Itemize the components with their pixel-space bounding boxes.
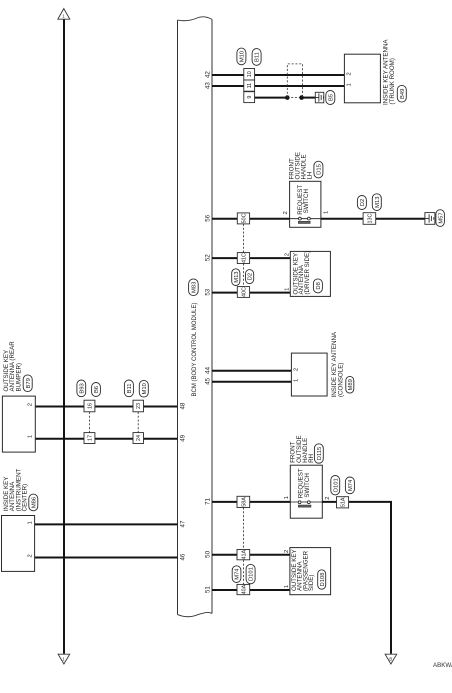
svg-text:B79: B79 [26, 378, 32, 388]
wire BCM 42 to trunk antenna pin 2 [212, 74, 344, 76]
svg-text:D101: D101 [333, 478, 339, 492]
svg-text:2: 2 [283, 211, 289, 214]
connector pin box 13C [363, 213, 376, 225]
svg-text:M89: M89 [348, 379, 354, 390]
ground M57 [425, 213, 435, 225]
shield dashed box [287, 64, 302, 98]
connector label D101 [331, 476, 340, 495]
svg-text:1: 1 [285, 288, 291, 291]
svg-text:M13: M13 [234, 271, 240, 282]
svg-text:D108: D108 [320, 573, 326, 587]
BCM pin 44 [205, 366, 212, 373]
svg-text:58A: 58A [241, 497, 247, 507]
wire bumper antenna pin 1 to BCM 49 [35, 438, 177, 440]
wire BCM 50 to passenger antenna pin 2 [212, 554, 290, 556]
svg-text:17: 17 [87, 435, 93, 441]
instrument antenna text [3, 468, 29, 511]
svg-text:41C: 41C [241, 253, 247, 263]
console antenna pin 1 [293, 379, 299, 382]
BCM pin 47 [179, 520, 186, 527]
console antenna label line 1 [331, 331, 338, 397]
outside key antenna rear bumper box B79 [2, 396, 35, 452]
svg-text:52: 52 [205, 254, 212, 261]
BCM pin 71 [205, 498, 212, 505]
svg-text:M10: M10 [142, 383, 148, 394]
ground B5 [315, 92, 324, 103]
connector label M10 [139, 380, 148, 397]
ground label M57 [436, 210, 445, 227]
svg-text:2: 2 [325, 496, 331, 499]
svg-text:42: 42 [205, 71, 212, 78]
wire request switch LH to ground M57 [321, 218, 425, 220]
svg-text:45: 45 [205, 377, 212, 384]
instrument antenna connector label M86 [29, 494, 38, 511]
svg-text:LH: LH [307, 172, 314, 180]
svg-text:2: 2 [293, 368, 299, 371]
passenger antenna pin 2 [284, 550, 290, 553]
BCM pin 45 [205, 377, 212, 384]
bumper antenna connector label B79 [23, 375, 32, 392]
connector label B11 [252, 49, 261, 66]
trunk antenna pin 1 [346, 83, 352, 86]
svg-text:B: B [389, 656, 392, 661]
instrument antenna pin 1 [28, 521, 34, 524]
request switch RH pin 1 [284, 496, 290, 499]
off-page arrow bottom left (node 1) [58, 654, 70, 664]
request switch LH internal wire [290, 218, 321, 220]
svg-text:1: 1 [27, 435, 33, 438]
svg-text:ABKWA: ABKWA [433, 662, 452, 669]
BCM connector label M83 [189, 279, 199, 296]
wire BCM 53 to driver antenna pin 1 [212, 292, 290, 294]
BCM pin 51 [205, 586, 212, 593]
bumper antenna text [3, 341, 23, 392]
handle RH connector label D115 [314, 444, 323, 463]
ground label B5 [326, 91, 335, 105]
svg-text:M74: M74 [235, 568, 241, 580]
BCM pin 42 [205, 71, 212, 78]
request switch LH text [297, 185, 310, 215]
trunk antenna pin 2 [346, 72, 352, 75]
diagram code ABKWA [433, 662, 452, 669]
wire instrument antenna pin 2 to BCM 46 [35, 557, 178, 559]
wire BCM 56 to request switch LH [212, 218, 290, 220]
console antenna pin 2 [293, 368, 299, 371]
svg-text:B5: B5 [328, 94, 334, 101]
connector pin box 23 [133, 400, 144, 412]
svg-text:M10: M10 [239, 51, 245, 62]
connector pin box 40A [237, 584, 250, 594]
connector label B93 [77, 380, 86, 397]
drain wire to ground [302, 97, 316, 99]
wire BCM 45 to console antenna pin 1 [212, 381, 291, 383]
svg-text:(CONSOLE): (CONSOLE) [338, 363, 345, 397]
svg-text:56: 56 [205, 214, 212, 221]
svg-text:46: 46 [179, 553, 186, 560]
connector pin box 41A [237, 549, 250, 559]
trunk antenna label line 2 [389, 58, 396, 104]
wire BCM 71 to request switch RH [212, 501, 290, 503]
wire BCM 51 to passenger antenna pin 1 [212, 589, 290, 591]
connector label B6 [92, 383, 101, 397]
driver antenna text [292, 251, 311, 295]
wire page-link vertical (left) [63, 19, 65, 654]
svg-text:10: 10 [247, 71, 253, 77]
BCM label text [192, 302, 198, 396]
svg-text:1: 1 [293, 379, 299, 382]
connector pin box 9 [244, 92, 255, 103]
svg-text:BCM (BODY CONTROL MODULE): BCM (BODY CONTROL MODULE) [192, 302, 198, 396]
svg-text:D101: D101 [249, 567, 255, 581]
BCM pin 53 [205, 288, 212, 295]
connector pin box 51A [337, 497, 349, 508]
dashed link 50C-41C [242, 224, 244, 253]
wire BCM 52 to driver antenna pin 2 [212, 257, 290, 259]
svg-text:51: 51 [205, 586, 212, 593]
connector pin box 41C [237, 253, 249, 264]
wire page-link vertical (right) [390, 502, 392, 654]
connector pin box 58A [237, 496, 250, 507]
wire request switch RH to page link [322, 501, 392, 503]
svg-text:43: 43 [205, 82, 212, 89]
svg-text:M13: M13 [375, 197, 381, 208]
svg-text:D15: D15 [316, 164, 322, 175]
handle LH connector label D15 [314, 161, 323, 178]
junction dot [285, 95, 290, 100]
connector pin box 10 [244, 69, 255, 81]
svg-text:23: 23 [136, 403, 142, 409]
svg-text:BUMPER): BUMPER) [15, 363, 22, 392]
svg-text:D115: D115 [317, 447, 323, 460]
BCM pin 50 [205, 550, 212, 557]
bumper antenna pin 1 [27, 435, 33, 438]
svg-text:CENTER): CENTER) [22, 484, 29, 512]
dashed link 41A-40A [242, 560, 244, 585]
connector label D101 [246, 564, 255, 583]
off-page arrow top (node 1) [58, 9, 70, 20]
outside key antenna passenger side box D108 [290, 548, 331, 595]
wire BCM 44 to console antenna pin 2 [212, 370, 291, 372]
svg-text:47: 47 [179, 520, 186, 527]
request switch RH pin 2 [325, 496, 331, 499]
outside key antenna driver side box D8 [290, 251, 330, 296]
front outside handle LH box D15 [290, 181, 321, 227]
connector pin box 16 [84, 400, 95, 412]
svg-text:SWITCH: SWITCH [304, 473, 311, 497]
svg-text:RH: RH [308, 454, 315, 463]
svg-text:13C: 13C [367, 213, 373, 223]
svg-text:41A: 41A [241, 549, 247, 559]
svg-text:71: 71 [205, 498, 212, 505]
dashed link 41C-40C [242, 264, 244, 287]
connector label D2 [357, 196, 366, 210]
wire instrument antenna pin 1 to BCM 47 [35, 523, 178, 525]
passenger antenna connector label D108 [318, 570, 326, 589]
svg-text:2: 2 [285, 253, 291, 256]
svg-text:D8: D8 [316, 282, 322, 289]
svg-text:D2: D2 [248, 273, 254, 280]
svg-text:B6: B6 [94, 386, 100, 393]
svg-text:B93: B93 [79, 383, 85, 393]
svg-text:SIDE): SIDE) [308, 574, 315, 591]
svg-text:M86: M86 [31, 497, 37, 508]
svg-text:50: 50 [205, 550, 212, 557]
svg-text:D2: D2 [360, 199, 366, 206]
svg-text:16: 16 [87, 403, 93, 409]
dashed link 58A-41A [242, 508, 244, 550]
connector label D2 [246, 270, 254, 284]
svg-text:1: 1 [323, 211, 329, 214]
svg-text:48: 48 [179, 402, 186, 409]
svg-text:M74: M74 [348, 479, 354, 491]
svg-text:M83: M83 [191, 282, 197, 293]
request switch RH text [297, 468, 311, 498]
request switch LH pin 2 [283, 211, 289, 214]
svg-text:24: 24 [136, 435, 142, 441]
connector label M74 [345, 477, 354, 494]
console antenna label line 2 [338, 363, 345, 397]
bumper antenna pin 2 [27, 403, 33, 406]
svg-text:(DRIVER SIDE): (DRIVER SIDE) [304, 251, 311, 295]
request switch LH pin 1 [323, 211, 329, 214]
connector pin box 17 [84, 433, 95, 444]
svg-text:51A: 51A [340, 497, 346, 507]
connector pin box 50C [237, 213, 249, 224]
svg-text:53: 53 [205, 288, 212, 295]
connector label M13 [372, 194, 381, 211]
svg-text:B11: B11 [127, 383, 133, 393]
dashed link 16-17 [89, 412, 91, 433]
connector label M10 [237, 48, 246, 65]
shield drain wire [255, 97, 288, 99]
BCM pin 48 [179, 402, 186, 409]
svg-text:40A: 40A [241, 584, 247, 594]
svg-text:1: 1 [284, 585, 290, 588]
console antenna connector label M89 [346, 376, 354, 393]
off-page arrow bottom right (node B) [385, 654, 397, 664]
svg-text:SWITCH: SWITCH [303, 189, 310, 213]
BCM pin 46 [179, 553, 186, 560]
inside key antenna instrument center box M86 [2, 516, 35, 572]
connector pin box 24 [133, 433, 144, 444]
trunk antenna connector label B49 [397, 85, 406, 102]
inside key antenna trunk room box B49 [344, 54, 380, 103]
request switch RH internal wire [290, 501, 322, 503]
svg-text:40C: 40C [241, 287, 247, 297]
svg-text:44: 44 [205, 366, 212, 373]
request switch RH contact [298, 501, 311, 507]
inside key antenna console box M89 [291, 353, 327, 396]
svg-text:9: 9 [247, 96, 253, 99]
dashed link 23-24 [137, 412, 139, 433]
svg-text:2: 2 [28, 554, 34, 557]
driver antenna connector label D8 [313, 279, 322, 293]
passenger antenna pin 1 [284, 585, 290, 588]
svg-text:B11: B11 [255, 52, 261, 62]
connector label M74 [232, 566, 241, 583]
svg-text:1: 1 [284, 496, 290, 499]
svg-text:B49: B49 [400, 89, 406, 99]
svg-text:2: 2 [284, 550, 290, 553]
svg-text:2: 2 [27, 403, 33, 406]
svg-text:2: 2 [346, 72, 352, 75]
handle RH label [290, 435, 315, 463]
BCM pin 43 [205, 82, 212, 89]
connector pin box 40C [237, 287, 249, 298]
driver antenna pin 1 [285, 288, 291, 291]
svg-text:1: 1 [28, 521, 34, 524]
svg-text:50C: 50C [241, 213, 247, 223]
BCM pin 56 [205, 214, 212, 221]
trunk antenna label line 1 [383, 39, 390, 105]
driver antenna pin 2 [285, 253, 291, 256]
junction dot [299, 95, 304, 100]
handle LH label [289, 152, 314, 180]
connector label B11 [124, 380, 133, 397]
front outside handle RH box D115 [290, 465, 322, 518]
svg-text:49: 49 [179, 434, 186, 441]
svg-text:M57: M57 [438, 212, 444, 223]
connector pin box 11 [244, 80, 255, 91]
passenger antenna text [291, 549, 315, 591]
instrument antenna pin 2 [28, 554, 34, 557]
shield dashed link [287, 97, 301, 99]
connector label M13 [232, 269, 240, 286]
BCM (BODY CONTROL MODULE) M83 band [178, 17, 213, 617]
wire BCM 43 to trunk antenna pin 1 [212, 85, 344, 87]
svg-text:(TRUNK ROOM): (TRUNK ROOM) [389, 58, 396, 104]
BCM pin 52 [205, 254, 212, 261]
svg-text:11: 11 [247, 83, 253, 89]
BCM pin 49 [179, 434, 186, 441]
wire bumper antenna pin 2 to BCM 48 [35, 406, 177, 408]
svg-text:1: 1 [346, 83, 352, 86]
request switch LH contact [298, 217, 310, 223]
